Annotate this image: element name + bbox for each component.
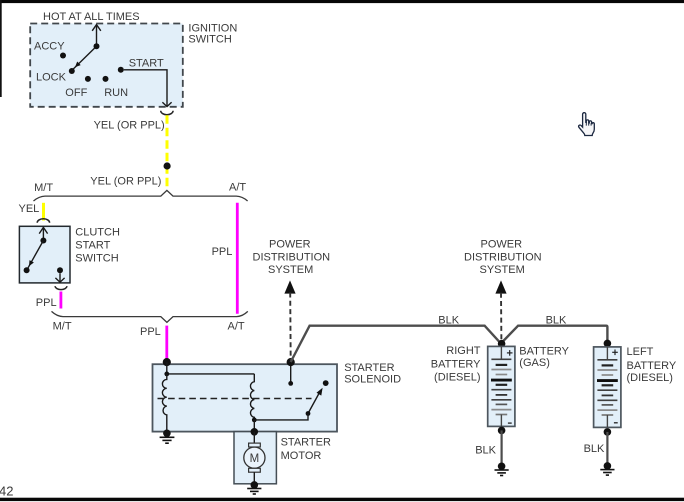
node PPL at solenoid	[163, 358, 171, 366]
ignition switch box	[30, 24, 183, 107]
clutch switch arm	[28, 241, 44, 269]
starter motor box	[234, 432, 276, 484]
node left battery positive	[604, 340, 612, 348]
clutch switch input arrow	[42, 228, 44, 241]
solenoid battery contact	[290, 362, 292, 383]
svg-text:PPL: PPL	[140, 326, 161, 338]
clutch switch output contact and arrow	[57, 267, 63, 273]
wire PPL below clutch switch	[60, 292, 63, 309]
svg-text:(GAS): (GAS)	[519, 357, 550, 369]
node right battery negative	[498, 427, 506, 435]
mouse cursor	[579, 113, 595, 136]
svg-text:(DIESEL): (DIESEL)	[434, 372, 480, 384]
splice junction	[164, 162, 171, 169]
contact LOCK	[69, 68, 75, 74]
svg-text:DISTRIBUTION: DISTRIBUTION	[464, 251, 542, 263]
svg-text:A/T: A/T	[228, 321, 245, 333]
svg-text:YEL (OR PPL): YEL (OR PPL)	[94, 120, 165, 132]
node battery feed at solenoid top	[287, 358, 295, 366]
svg-text:SWITCH: SWITCH	[75, 253, 118, 265]
svg-text:OFF: OFF	[65, 87, 87, 99]
wire YEL (OR PPL) dashed	[166, 115, 169, 190]
ground left battery	[604, 462, 612, 470]
wire START output to connector	[124, 70, 167, 106]
starter solenoid box	[153, 364, 338, 431]
svg-text:START: START	[75, 240, 110, 252]
svg-text:PPL: PPL	[212, 246, 233, 258]
wire motor to ground	[253, 472, 255, 484]
svg-text:MOTOR: MOTOR	[281, 450, 322, 462]
arrow to power distribution system (right)	[495, 280, 506, 293]
svg-text:DISTRIBUTION: DISTRIBUTION	[253, 251, 331, 263]
dashed wire to power distribution (left)	[289, 293, 292, 361]
svg-text:BATTERY: BATTERY	[519, 346, 569, 358]
contact ACCY	[60, 53, 66, 59]
svg-text:POWER: POWER	[269, 238, 311, 250]
svg-text:PPL: PPL	[36, 297, 57, 309]
ground right battery	[498, 463, 506, 471]
connector cup above clutch start switch	[37, 219, 49, 223]
pull-in coil	[162, 374, 166, 432]
motor M	[249, 443, 261, 447]
connector cup below clutch switch	[55, 286, 67, 289]
node right battery positive	[498, 340, 506, 348]
svg-text:START: START	[129, 57, 164, 69]
svg-text:STARTER: STARTER	[344, 362, 394, 374]
svg-text:M: M	[250, 453, 260, 465]
coil feed wire	[167, 362, 255, 374]
contact OFF	[85, 76, 91, 82]
brace split to M/T and A/T	[34, 190, 248, 201]
wire PPL to starter solenoid	[165, 326, 168, 361]
ground at starter motor	[251, 481, 259, 489]
wire coil junction to motor node	[253, 420, 255, 432]
svg-text:BATTERY: BATTERY	[627, 360, 677, 372]
node solenoid output	[251, 428, 259, 436]
svg-text:SYSTEM: SYSTEM	[480, 264, 525, 276]
svg-text:M/T: M/T	[34, 182, 53, 194]
wire solenoid to motor	[253, 432, 255, 443]
clutch start switch box	[19, 226, 70, 283]
wire switch arm to coil junction	[256, 414, 309, 420]
svg-text:STARTER: STARTER	[281, 437, 331, 449]
svg-text:42: 42	[0, 484, 13, 499]
brace merge M/T and A/T	[52, 311, 248, 322]
svg-text:POWER: POWER	[481, 238, 523, 250]
svg-text:M/T: M/T	[53, 321, 72, 333]
contact START	[118, 67, 124, 73]
svg-text:LOCK: LOCK	[36, 72, 67, 84]
ground at solenoid	[163, 430, 171, 438]
svg-text:(DIESEL): (DIESEL)	[627, 372, 673, 384]
wire YEL M/T branch	[42, 203, 45, 221]
ignition switch wiper arm	[73, 46, 97, 70]
svg-text:SYSTEM: SYSTEM	[268, 264, 313, 276]
wire BLK left battery to ground	[606, 432, 608, 463]
svg-text:BATTERY: BATTERY	[431, 359, 481, 371]
svg-text:BLK: BLK	[475, 445, 496, 457]
contact RUN	[103, 76, 109, 82]
svg-text:CLUTCH: CLUTCH	[75, 227, 120, 239]
svg-text:A/T: A/T	[229, 182, 246, 194]
wire BLK solenoid to batteries	[291, 326, 608, 362]
right battery (gas)	[488, 346, 515, 426]
wire PPL A/T branch	[236, 203, 239, 314]
arrow to power distribution system (left)	[284, 280, 295, 293]
svg-text:ACCY: ACCY	[34, 41, 65, 53]
node left battery negative	[604, 428, 612, 436]
svg-text:BLK: BLK	[584, 443, 605, 455]
svg-text:BLK: BLK	[546, 314, 567, 326]
svg-text:YEL (OR PPL): YEL (OR PPL)	[90, 175, 161, 187]
solenoid motor contact	[323, 380, 329, 386]
svg-text:YEL: YEL	[19, 203, 40, 215]
solenoid switch arm	[308, 393, 320, 414]
svg-text:IGNITION: IGNITION	[188, 22, 237, 34]
svg-text:RIGHT: RIGHT	[446, 345, 481, 357]
svg-text:HOT AT ALL TIMES: HOT AT ALL TIMES	[43, 11, 140, 23]
connector cup below ignition switch	[161, 111, 173, 115]
svg-text:LEFT: LEFT	[627, 346, 654, 358]
svg-text:SOLENOID: SOLENOID	[344, 373, 401, 385]
wire BLK right battery to ground	[501, 430, 503, 464]
hold-in coil	[250, 374, 254, 419]
left battery (diesel)	[594, 347, 621, 428]
svg-text:BLK: BLK	[438, 314, 459, 326]
dashed wire to power distribution (right)	[500, 293, 502, 342]
ignition switch feed arrow to HOT AT ALL TIMES	[96, 25, 98, 46]
svg-text:SWITCH: SWITCH	[188, 34, 231, 46]
svg-text:RUN: RUN	[104, 87, 128, 99]
plunger linkage (dashed)	[158, 398, 312, 400]
